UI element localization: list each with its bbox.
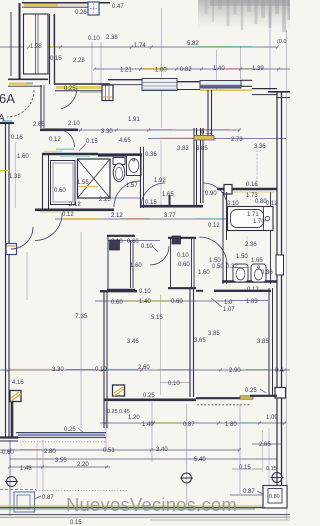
dim vert x161 bedroom1 — [160, 295, 162, 395]
svg-text:2.60: 2.60 — [138, 365, 150, 371]
top exterior wall seg1 green fringe — [80, 91, 110, 93]
svg-text:0.16: 0.16 — [246, 182, 258, 188]
svg-text:1.20: 1.20 — [128, 415, 140, 421]
bath1 left wall line1 — [42, 154, 44, 210]
rainbow y370 cyan — [108, 368, 138, 370]
svg-text:2.38: 2.38 — [106, 35, 118, 41]
hall wall y130 — [40, 129, 78, 132]
bedroom1 corner hatched post — [113, 385, 125, 396]
dim vert x152 bottom — [151, 402, 153, 462]
living bottom window top line — [16, 432, 106, 434]
svg-text:0.25: 0.25 — [107, 409, 118, 415]
dim line y450 left — [0, 449, 152, 451]
dim line 2.25 fringe — [95, 197, 135, 199]
svg-text:1.98: 1.98 — [30, 44, 42, 50]
door arc left wall — [11, 227, 33, 249]
dim line 3.55 y459 — [10, 458, 152, 460]
dim line y301 — [95, 300, 232, 302]
bath2 left wall line1 — [222, 192, 224, 284]
corridor wall line1 — [193, 128, 195, 205]
living window yellow stripe — [18, 432, 60, 434]
svg-text:0.12: 0.12 — [208, 223, 220, 229]
svg-text:1.57: 1.57 — [126, 183, 138, 189]
bath1 wardrobe — [51, 161, 76, 205]
entry door sill cyan — [2, 120, 12, 122]
survey marker left — [5, 477, 18, 487]
svg-text:0.50: 0.50 — [212, 264, 224, 270]
svg-text:A: A — [0, 113, 5, 124]
bedroom1 top wall — [100, 290, 137, 292]
bottom middle wall right — [196, 397, 250, 399]
top wall seg2 — [108, 79, 142, 81]
dim ext vert x92 — [91, 42, 93, 84]
top right corner wall — [268, 91, 290, 93]
svg-text:1.48: 1.48 — [20, 466, 32, 472]
shower cross diagonal 2 — [78, 159, 111, 198]
entry top wall yellow fill — [24, 4, 58, 6]
meter box dashes — [90, 4, 97, 14]
svg-text:0.10: 0.10 — [111, 239, 123, 245]
svg-text:0.60: 0.60 — [178, 262, 190, 268]
svg-text:1.55: 1.55 — [77, 180, 89, 186]
kitchen bottom wall yellow fringe — [234, 191, 274, 193]
svg-text:1.70: 1.70 — [253, 219, 265, 225]
top wall seg3 inner — [177, 89, 200, 91]
bidet2 tap — [257, 266, 259, 268]
boundary line 2 — [0, 514, 290, 516]
dim vert x269 bottom — [268, 428, 270, 485]
tick marks group — [7, 46, 286, 469]
svg-text:1.60: 1.60 — [17, 154, 29, 160]
top wall seg5 inner — [252, 94, 277, 96]
left wall foot lower line — [0, 440, 18, 442]
leader 1.07 — [211, 298, 222, 307]
door arc bedroom1 — [150, 246, 169, 265]
dim line top color fringe yellow — [28, 46, 58, 48]
dashed utility box left — [14, 492, 35, 512]
door arc bath1 lower — [114, 181, 140, 207]
svg-text:1.38: 1.38 — [9, 174, 21, 180]
svg-text:3.65: 3.65 — [194, 338, 206, 344]
hall-bath divider vertical line2 — [43, 85, 45, 128]
scanner smudge top band — [210, 0, 290, 6]
corridor wall line4 — [202, 128, 204, 203]
left wall upper — [19, 3, 21, 79]
dim vert x186.5 bottom — [186, 404, 188, 505]
svg-text:0.60: 0.60 — [111, 300, 123, 306]
kitchen window top — [200, 81, 241, 89]
dim line top color fringe rainbow — [196, 46, 232, 48]
boundary band cyan — [0, 508, 255, 510]
dim ext vert x15.5 — [15, 142, 17, 208]
dim line 2.65 y444 — [252, 443, 282, 445]
kitchen window dark hatch — [200, 85, 241, 88]
kitchen left wall line1 — [207, 90, 209, 137]
leader 0.15 bath — [79, 144, 86, 152]
dim y423 fringe cyan — [240, 422, 262, 424]
kitchen window yellow sill — [200, 89, 252, 91]
bath1 bottom wall fringe — [40, 211, 70, 213]
toilet1 bowl — [113, 164, 125, 182]
hall right wall line2 — [54, 14, 56, 85]
dim line 2 y69 — [95, 68, 290, 70]
dim line y467 — [10, 466, 110, 468]
hall-bath divider vertical line1 — [40, 85, 42, 128]
survey marker right — [271, 473, 284, 483]
living window red stripe — [18, 435, 105, 437]
bath1 top wall cyan fringe — [60, 155, 90, 157]
bedroom2 bottom window color — [240, 396, 253, 399]
right wall radiator box — [276, 255, 284, 275]
bath2 left wall line2 — [226, 192, 228, 284]
bath2 bottom wall — [222, 280, 277, 283]
dim line 2.25 y198 — [90, 197, 140, 199]
svg-text:6A: 6A — [0, 91, 15, 106]
hall right wall line1 — [49, 14, 51, 84]
leader 0.87 right — [257, 491, 263, 494]
svg-text:0.87: 0.87 — [42, 495, 54, 501]
svg-text:1.80: 1.80 — [225, 422, 237, 428]
shower cross diagonal 1 — [78, 159, 111, 198]
svg-text:1.83: 1.83 — [246, 299, 258, 305]
rainbow y370 red — [66, 369, 95, 371]
door arc hall — [61, 88, 77, 109]
window column color tick — [103, 96, 112, 98]
door arc corridor left — [141, 183, 165, 207]
svg-text:0.60: 0.60 — [54, 188, 66, 194]
corridor stub wall — [169, 195, 171, 207]
dim vert x106 bottom — [105, 404, 107, 450]
wardrobe2 right wall line2 — [193, 238, 195, 288]
dim vert x262.5 bottom — [262, 430, 264, 472]
left bottom hatched post fill — [11, 392, 21, 401]
meter box — [88, 2, 99, 15]
dim line 2 fringe2 — [228, 68, 252, 70]
svg-text:1.92: 1.92 — [154, 178, 166, 184]
dim ext vert x270 — [269, 8, 271, 90]
top wall seg5 — [252, 88, 277, 90]
svg-text:2.73: 2.73 — [231, 137, 243, 143]
entry door sill stub — [0, 122, 14, 124]
left exterior wall inner — [8, 122, 10, 437]
svg-text:0.32: 0.32 — [226, 264, 238, 270]
svg-text:NuevosVecinos.com: NuevosVecinos.com — [66, 494, 237, 515]
bathtub inner — [231, 210, 264, 228]
left wall yellow tick — [0, 170, 9, 172]
bath1 wardrobe inner — [53, 163, 73, 202]
dashed blue line y489 — [0, 489, 36, 491]
svg-text:-0.60: -0.60 — [0, 450, 14, 456]
svg-text:2.12: 2.12 — [69, 202, 81, 208]
svg-text:0.15: 0.15 — [145, 200, 157, 206]
door arc bath1 upper — [57, 129, 75, 147]
boundary line 3 — [0, 516, 290, 518]
wardrobe1 right wall line1 — [130, 240, 132, 288]
svg-text:2.25: 2.25 — [99, 197, 111, 203]
dim y423 fringe yellow — [150, 422, 180, 424]
svg-text:0.12: 0.12 — [49, 137, 61, 143]
dim y450 fringe — [20, 449, 42, 451]
svg-text:7.35: 7.35 — [75, 313, 88, 320]
bedroom2 right wall line1 — [268, 288, 270, 396]
svg-text:0.25: 0.25 — [245, 388, 257, 394]
door arc corridor right — [203, 183, 227, 207]
dim line 2 fringe — [140, 68, 168, 70]
svg-text:0.12: 0.12 — [266, 201, 278, 207]
wardrobe1 bottom wall — [107, 289, 135, 291]
bathtub faucet — [265, 216, 269, 220]
door arc kitchen — [199, 237, 227, 265]
svg-text:0.10: 0.10 — [227, 201, 239, 207]
svg-text:0.47: 0.47 — [112, 4, 124, 10]
dim vert x37 bottom — [36, 443, 38, 490]
entry top wall — [22, 2, 110, 4]
dim vert x240 bottom — [239, 404, 241, 494]
dim line 3.40 y450 right — [152, 449, 240, 451]
right exterior wall outer — [281, 92, 283, 490]
survey marker middle — [180, 473, 193, 483]
svg-text:3.36: 3.36 — [254, 144, 266, 150]
svg-text:0.15: 0.15 — [86, 139, 98, 145]
left wall box orange line — [7, 245, 16, 247]
bath1 top wall right thick — [98, 153, 142, 156]
left wall foot bottom — [0, 436, 18, 438]
bedroom1 left wall line1 — [103, 291, 105, 428]
dim line y138 — [148, 138, 286, 140]
salon window mullions — [142, 82, 177, 86]
bottom middle wall — [104, 398, 196, 401]
svg-text:0.25: 0.25 — [64, 86, 76, 92]
door leaf cyan bath1 — [56, 148, 74, 150]
svg-text:2.20: 2.20 — [77, 462, 89, 468]
closet division 1 — [35, 14, 37, 74]
corridor wall line2 — [196, 128, 198, 205]
svg-text:1.39: 1.39 — [252, 66, 264, 72]
bath1 right wall line1 — [140, 147, 142, 208]
dim line 3.77 fringe cyan — [196, 218, 228, 220]
svg-text:5.40: 5.40 — [194, 457, 206, 463]
bedroom2 top wall — [214, 290, 271, 292]
toilet2 seat line — [234, 267, 247, 269]
svg-text:0.82: 0.82 — [180, 67, 192, 73]
svg-text:3.30: 3.30 — [52, 367, 64, 373]
dim line hall fringe orange — [200, 129, 230, 131]
bedroom1 left wall line2 — [106, 291, 108, 428]
rainbow y370 yellow — [10, 368, 60, 370]
dim vert x10 bottom — [9, 440, 11, 516]
left exterior wall outer — [5, 122, 7, 437]
svg-text:0.15: 0.15 — [70, 520, 82, 526]
dim line hall y130 — [78, 129, 240, 131]
svg-text:0.80: 0.80 — [269, 494, 280, 500]
shaft box inner — [268, 489, 282, 504]
kitchen wall jog band — [194, 136, 214, 141]
dim ext vert x216.5 — [216, 50, 218, 90]
svg-text:1.07: 1.07 — [223, 307, 235, 313]
bidet2 bowl — [255, 269, 263, 280]
svg-text:5.15: 5.15 — [151, 315, 163, 321]
dotted teal line y490 — [36, 490, 128, 492]
dim ext vert x101 — [100, 42, 102, 84]
svg-text:2.80: 2.80 — [44, 449, 56, 455]
dim line hall fringe yellow — [44, 128, 60, 130]
svg-text:0.15: 0.15 — [50, 56, 62, 62]
wardrobe1 column — [110, 240, 120, 250]
svg-text:0.15: 0.15 — [239, 465, 251, 471]
svg-text:3.45: 3.45 — [127, 339, 139, 345]
svg-text:0.10: 0.10 — [95, 367, 107, 373]
svg-text:0.87: 0.87 — [183, 422, 195, 428]
top exterior wall seg1 yellow — [56, 86, 101, 89]
bidet2 body — [251, 264, 266, 282]
svg-text:0.12: 0.12 — [247, 287, 259, 293]
kitchen left wall line2 — [211, 90, 213, 137]
dim line 0.15 y469 right — [232, 468, 262, 470]
leader 0.87 left — [34, 496, 41, 499]
svg-text:3.30: 3.30 — [101, 129, 113, 135]
dim line top y47 — [0, 46, 278, 48]
svg-text:1.0: 1.0 — [224, 300, 233, 306]
shower tray — [78, 159, 111, 198]
bedroom divider wall line1 — [189, 288, 191, 397]
wardrobe2 left wall — [170, 238, 172, 288]
svg-text:0.12: 0.12 — [62, 212, 74, 218]
living window dotted line below — [20, 441, 106, 443]
svg-text:0.10: 0.10 — [139, 289, 151, 295]
svg-text:1.00: 1.00 — [155, 68, 167, 74]
dim ext vert x161.5 — [161, 8, 163, 128]
svg-text:3.85: 3.85 — [257, 339, 269, 345]
bathtub outer — [228, 207, 274, 231]
dim line 0.87 y495 — [230, 494, 263, 496]
living window blue stripe — [18, 433, 105, 435]
boundary band dark — [0, 507, 265, 509]
svg-text:0.12: 0.12 — [201, 130, 213, 136]
svg-text:1.65: 1.65 — [251, 258, 263, 264]
left wall upper inner — [10, 12, 12, 76]
svg-text:1.74: 1.74 — [134, 43, 146, 49]
dim line y301 fringe — [125, 300, 170, 302]
svg-text:1.71: 1.71 — [247, 212, 259, 218]
dim line 5.40 y459 — [152, 458, 277, 460]
bedroom2 right wall line2 — [272, 288, 274, 396]
dim line hall fringe cyan — [150, 129, 172, 131]
boundary line 4 — [150, 519, 290, 521]
dim ext vert x53.5 — [53, 14, 55, 46]
left bottom jog vertical — [11, 401, 14, 437]
salon window cyan sill — [143, 88, 176, 90]
corridor bottom wall — [140, 205, 203, 208]
scanner smudge top-right — [198, 0, 290, 30]
top wall seg2 inner — [108, 84, 142, 86]
toilet2 body — [233, 264, 248, 282]
svg-text:3.55: 3.55 — [55, 458, 67, 464]
svg-text:0.10: 0.10 — [141, 244, 153, 250]
top wall seg4 — [241, 80, 252, 86]
dim line terrace y423 — [100, 422, 286, 424]
svg-text:5.82: 5.82 — [187, 41, 199, 47]
dim vert 7.35 x81 — [80, 232, 82, 428]
top wall seg3 — [177, 81, 200, 83]
bedroom2 bottom wall — [250, 395, 277, 397]
svg-text:0.25: 0.25 — [64, 427, 76, 433]
living bottom window bottom line — [16, 436, 106, 438]
wardrobe2 bottom wall — [168, 287, 196, 289]
wardrobe1 right wall line2 — [132, 240, 134, 288]
utility box left inner — [17, 495, 30, 509]
closet top-left — [24, 14, 49, 74]
svg-text:0.60: 0.60 — [171, 299, 183, 305]
closet division 2 — [37, 14, 39, 74]
leader 0.25 terrace right — [260, 389, 266, 393]
bedroom1 corner post hatch — [114, 387, 124, 396]
dim vert x251 kitchen dashed — [256, 146, 258, 186]
sink1 basin — [129, 159, 139, 173]
wardrobe2 column — [172, 236, 181, 244]
svg-text:1.65: 1.65 — [162, 192, 174, 198]
sink1 counter — [127, 156, 142, 176]
svg-text:1.91: 1.91 — [128, 117, 140, 123]
svg-text:4.65: 4.65 — [119, 138, 131, 144]
corridor wall line3 — [200, 128, 202, 203]
dim line y138 fringe — [160, 137, 200, 139]
svg-text:1.21: 1.21 — [120, 68, 132, 74]
sink1 tap — [133, 159, 135, 161]
bath1 top wall — [42, 153, 98, 155]
door arc entry 6A — [7, 90, 34, 117]
svg-text:0.87: 0.87 — [243, 489, 255, 495]
salon window top — [142, 79, 177, 91]
dim vert x161 corridor — [160, 140, 162, 205]
svg-text:2.65: 2.65 — [259, 442, 271, 448]
dim vert x27 — [26, 252, 28, 300]
svg-text:2.10: 2.10 — [68, 121, 80, 127]
svg-text:0.36: 0.36 — [145, 152, 157, 158]
leader 0.10 corridor — [152, 246, 158, 252]
svg-text:3.40: 3.40 — [156, 447, 168, 453]
svg-text:2.90: 2.90 — [229, 368, 241, 374]
svg-text:0.36: 0.36 — [261, 270, 273, 276]
bath1 right wall line2 — [143, 147, 145, 208]
terrace corner post — [275, 388, 286, 399]
svg-text:0.10: 0.10 — [177, 253, 189, 259]
svg-text:1.09: 1.09 — [266, 415, 278, 421]
svg-text:0.10: 0.10 — [88, 36, 100, 42]
dim vert x43 bottom — [42, 440, 44, 492]
svg-text:1.40: 1.40 — [213, 66, 225, 72]
svg-text:3.85: 3.85 — [208, 331, 220, 337]
svg-text:1.40: 1.40 — [139, 299, 151, 305]
kitchen bottom wall block — [224, 185, 232, 195]
svg-text:2.36: 2.36 — [245, 242, 257, 248]
hall bottom wall cyan tick — [26, 82, 33, 84]
dim line 3.77 y219 — [55, 218, 232, 220]
wardrobe1 left wall — [107, 236, 109, 291]
svg-text:0.16: 0.16 — [11, 135, 23, 141]
bath1 bottom wall — [35, 209, 114, 212]
svg-text:0.26: 0.26 — [75, 10, 87, 16]
bathtub divider — [263, 207, 265, 230]
window column symbol — [102, 85, 113, 101]
entry top wall inner line — [22, 6, 88, 8]
wardrobe2 top wall — [168, 237, 196, 239]
svg-text:0.15: 0.15 — [266, 466, 277, 472]
svg-text:0.60: 0.60 — [127, 239, 139, 245]
left wall box — [6, 244, 17, 255]
top exterior wall seg1 inner — [55, 90, 102, 92]
svg-text:0.10: 0.10 — [168, 381, 180, 387]
right exterior wall inner — [276, 92, 278, 490]
